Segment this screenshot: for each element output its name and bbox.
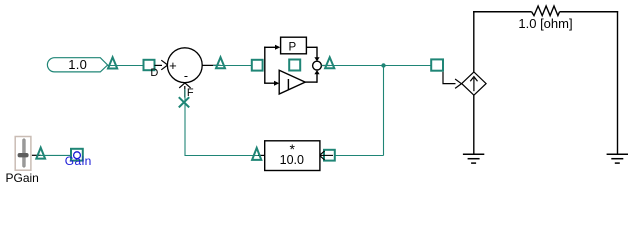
wire square to summer input	[155, 64, 163, 66]
svg-text:Gain: Gain	[65, 154, 92, 168]
data square S1	[144, 60, 155, 70]
svg-text:10.0: 10.0	[280, 153, 304, 167]
wire summer to PI input	[213, 65, 252, 67]
ground left	[463, 154, 484, 163]
signal arrow marker T5	[36, 148, 45, 159]
feedback cross marker X	[179, 97, 189, 107]
signal arrow marker T3	[325, 57, 334, 68]
feedback vertical wire	[383, 66, 385, 156]
summer bottom input arrowhead F	[179, 83, 190, 88]
multiplier input arrowhead	[320, 151, 325, 160]
signal arrow marker T2	[216, 57, 225, 68]
current source bottom wire	[473, 95, 475, 154]
data square S3 inside PI	[289, 60, 300, 71]
ground right	[607, 154, 628, 163]
data square S2	[252, 60, 263, 71]
svg-text:1.0 [ohm]: 1.0 [ohm]	[518, 16, 572, 31]
junction node dot	[381, 63, 385, 67]
constant source block 1.0	[47, 57, 107, 72]
svg-text:I: I	[286, 77, 290, 94]
summer circle U1	[167, 48, 202, 83]
svg-text:1.0: 1.0	[68, 57, 87, 72]
feedback horizontal wire to multiplier	[335, 155, 384, 157]
slider output stub	[32, 154, 41, 156]
wire slider to Gain node	[40, 154, 72, 156]
svg-text:PGain: PGain	[6, 171, 39, 185]
data square S5	[324, 150, 335, 161]
current source input arrowhead	[455, 79, 461, 88]
top wire to resistor	[473, 11, 531, 13]
svg-text:-: -	[184, 69, 188, 83]
right branch wire down	[617, 11, 619, 154]
signal arrow marker T1	[108, 57, 117, 68]
slider control PGain	[15, 137, 31, 171]
wire source to data merge square	[108, 65, 144, 67]
top wire resistor to right branch	[560, 11, 619, 13]
summer input arrowhead D	[161, 60, 167, 70]
svg-text:P: P	[288, 42, 296, 54]
resistor R1 zigzag	[532, 6, 560, 16]
svg-text:+: +	[169, 58, 177, 73]
svg-text:D: D	[150, 67, 158, 79]
summer output stub	[202, 64, 220, 66]
signal arrow marker T4	[252, 148, 261, 160]
node Gain square S6	[71, 149, 83, 161]
left branch wire up	[473, 11, 475, 72]
PI controller block U2	[264, 37, 330, 94]
wire PI output to current source control	[322, 65, 432, 67]
feedback wire to summer	[185, 89, 258, 156]
multiplier block 10.0	[265, 141, 320, 171]
wire square to current source	[443, 72, 456, 84]
current source diamond U3	[462, 72, 486, 95]
data square S4	[431, 59, 443, 70]
multiplier output stub	[258, 154, 265, 156]
summer bottom input stub	[184, 86, 186, 98]
